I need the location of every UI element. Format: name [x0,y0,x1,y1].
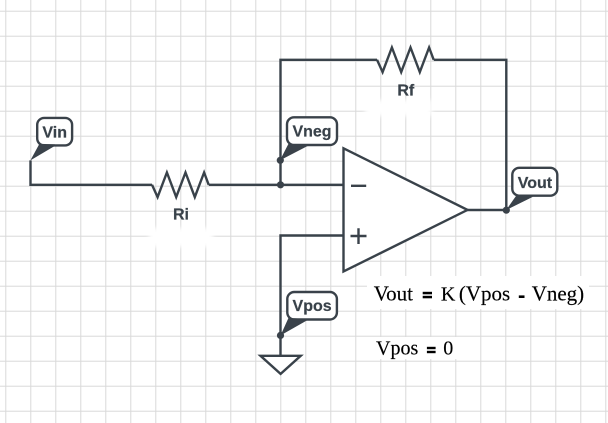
svg-text:Vin: Vin [42,125,67,142]
junction dot: Vpos probe point [277,332,284,339]
wire: feedback loop left vertical and top [281,60,378,185]
equation: Vout = K (Vpos - Vneg) [367,276,589,309]
op-amp U1 [344,148,468,271]
resistor Ri [152,173,209,224]
svg-text:Vout: Vout [518,175,553,192]
junction dot: Vneg probe point [277,157,284,164]
ground [261,356,301,374]
svg-text:Ri: Ri [173,207,189,224]
resistor Rf [377,48,434,100]
svg-text:Vpos: Vpos [293,298,332,315]
svg-text:Vneg: Vneg [292,124,331,141]
callout Vpos [281,292,337,335]
callout Vin [30,118,72,160]
wire: feedback top right and right vertical to output [434,60,507,210]
svg-text:Rf: Rf [397,82,415,99]
wire: Vin input to op-amp inverting input [31,160,344,184]
wire: op-amp output [468,209,507,211]
junction dot: inverting input node [277,181,284,188]
callout Vneg [280,117,337,160]
svg-text:VoutK(VposVneg): VoutK(VposVneg) [374,281,584,305]
callout Vout [506,168,557,210]
equation: Vpos = 0 [371,337,459,360]
junction dot: output node [503,207,510,214]
wire: non-inverting input to ground [281,236,344,357]
